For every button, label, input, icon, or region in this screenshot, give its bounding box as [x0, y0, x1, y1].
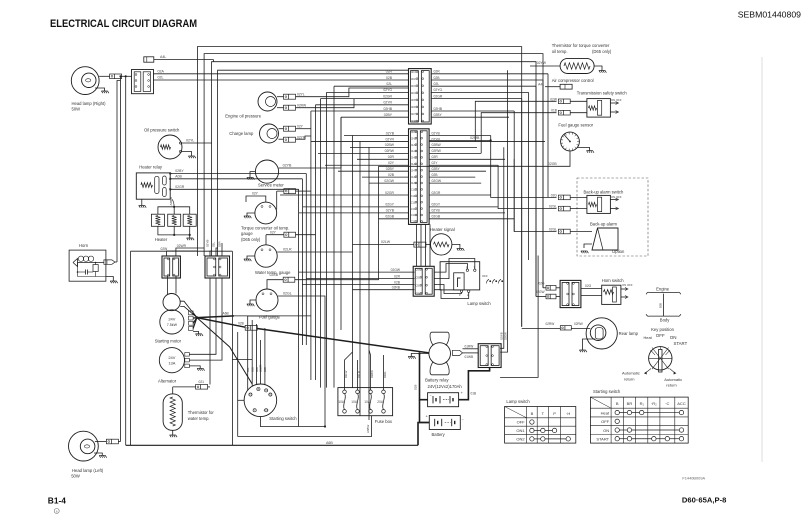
ground heater: [187, 238, 195, 240]
ground battery relay: [408, 357, 416, 359]
svg-text:Fuse box: Fuse box: [375, 419, 393, 424]
wire heater signal in: [380, 243, 414, 245]
connector headlamp L: [106, 439, 118, 444]
wire tc right: [276, 191, 278, 209]
node junction: [125, 75, 127, 77]
wire ss left stub: [232, 359, 252, 361]
fuel gauge: [256, 289, 278, 311]
svg-text:CH9: CH9: [411, 181, 417, 185]
svg-text:Starting switch: Starting switch: [593, 389, 621, 394]
wire fuse bottom: [238, 416, 372, 437]
fuse F3: [369, 390, 373, 394]
connector bas1: [558, 195, 570, 200]
wire heater gnd: [189, 235, 191, 238]
svg-text:02R: 02R: [434, 70, 441, 74]
wire connector to relay: [122, 75, 132, 77]
wire charge 2: [279, 138, 284, 140]
svg-text:02GR: 02GR: [434, 94, 443, 98]
svg-text:02GL: 02GL: [283, 292, 292, 296]
starting motor main circle: [160, 310, 184, 334]
heater resistor bank: [151, 214, 164, 226]
wire CN1 R2: [431, 79, 543, 81]
wire fuse F2 top: [357, 382, 359, 390]
wire hr bundle d3: [298, 189, 300, 426]
svg-text:02GW: 02GW: [391, 268, 401, 272]
ground horn: [110, 281, 118, 283]
component A4L fuse: [144, 57, 154, 62]
frame right edge: [761, 57, 763, 462]
relay block K1: [132, 70, 154, 94]
svg-text:B: B: [531, 411, 534, 416]
wire CN2 R3: [429, 146, 477, 148]
svg-text:05B: 05B: [250, 367, 254, 372]
svg-text:02GL: 02GL: [549, 228, 557, 232]
svg-text:Body: Body: [660, 317, 670, 322]
charge lamp: [260, 124, 279, 143]
wire CN2 R13: [429, 206, 498, 208]
wire inner-frame top: [131, 250, 233, 252]
svg-text:06B: 06B: [263, 367, 267, 372]
wire heater bottom rail: [158, 226, 190, 235]
svg-text:·H: ·H: [566, 411, 570, 416]
wire mid conn2: [266, 234, 284, 236]
svg-text:7.5kW: 7.5kW: [167, 323, 178, 327]
connector CN2 lower: [409, 129, 430, 225]
svg-text:Torque converter oil temp.: Torque converter oil temp.: [241, 225, 289, 230]
svg-text:Starting motor: Starting motor: [155, 339, 182, 344]
wire CN1 R4: [431, 91, 528, 93]
svg-text:02RW: 02RW: [574, 322, 583, 326]
head lamp (Right): [71, 67, 99, 95]
wire fuel gnd: [250, 300, 256, 304]
wire eng oil 2: [277, 107, 284, 109]
wire CN2 to lampsw drops: [416, 224, 418, 266]
svg-text:Battery relay: Battery relay: [425, 377, 449, 382]
wire CN2 R14: [429, 212, 505, 214]
wire heater relay o3: [170, 188, 298, 190]
svg-text:02R: 02R: [386, 70, 393, 74]
svg-text:C: C: [254, 409, 256, 412]
starting switch pins: [257, 387, 260, 390]
wire ba gnd: [584, 244, 592, 248]
thermistor torque converter: [560, 58, 594, 73]
wire rear lamp conn: [571, 327, 590, 329]
wire top bus 3: [212, 62, 536, 297]
wire horn to riser: [115, 261, 117, 263]
wire motor pin stubs: [180, 301, 197, 317]
page mark: [54, 508, 59, 513]
wire right bundle v4: [498, 165, 556, 209]
starting motor pins: [189, 311, 194, 315]
svg-text:02G: 02G: [585, 284, 592, 288]
ground fuel gauge: [247, 304, 255, 306]
wire battery2 minus: [418, 423, 429, 446]
svg-text:02B: 02B: [388, 173, 395, 177]
wire connA up2: [176, 248, 204, 256]
wire alt1: [189, 330, 216, 354]
wire CN1r v3: [535, 86, 537, 296]
svg-text:CD5: CD5: [411, 98, 417, 102]
wire lamp sw 2: [306, 278, 414, 280]
svg-text:return: return: [666, 383, 676, 388]
wire CN1 R1: [431, 73, 548, 75]
svg-text:SEBM01440809: SEBM01440809: [738, 10, 801, 20]
svg-text:02L: 02L: [212, 242, 216, 247]
wire ts2: [570, 112, 587, 114]
wire fuse F1 top: [344, 382, 346, 390]
heater signal: [431, 234, 452, 255]
fuse F2: [356, 390, 360, 394]
water temp gauge: [255, 245, 277, 267]
head lamp (Left) pin: [95, 441, 107, 443]
svg-text:02W: 02W: [550, 97, 558, 101]
wire right bundle v5: [500, 147, 504, 348]
svg-text:02BW: 02BW: [370, 370, 374, 378]
ground alternator: [197, 369, 205, 371]
connector charge 1: [284, 126, 296, 131]
svg-text:Lamp switch: Lamp switch: [506, 399, 530, 404]
svg-text:02YB: 02YB: [432, 131, 441, 135]
svg-text:ACC: ACC: [264, 409, 269, 412]
wire A4L drop: [212, 60, 214, 62]
wire heater relay o2: [170, 178, 302, 180]
service meter: [255, 160, 278, 183]
svg-text:·R₂: ·R₂: [651, 401, 657, 406]
wire top bus 4: [218, 70, 409, 256]
svg-text:02BW: 02BW: [432, 143, 442, 147]
wire right bundle v3: [491, 136, 557, 198]
svg-text:02Y: 02Y: [297, 125, 304, 129]
wire connA d1: [167, 276, 169, 294]
svg-text:P: P: [553, 411, 556, 416]
wire right bundle v1: [475, 101, 556, 141]
svg-text:A4L: A4L: [538, 82, 544, 86]
horn symbol: [73, 259, 78, 267]
wire headlamp feed vertical: [120, 76, 122, 441]
wire hr bundle d2: [301, 179, 303, 345]
svg-text:02BY: 02BY: [432, 167, 441, 171]
svg-text:Automatic: Automatic: [664, 377, 682, 382]
wire fgs bottom 02GB: [379, 151, 571, 166]
wire junction 02MB: [490, 139, 492, 141]
svg-text:24V(12Vx2)170Ah: 24V(12Vx2)170Ah: [428, 384, 463, 389]
svg-text:02RL: 02RL: [383, 371, 387, 378]
wire bottom bus A6B: [126, 444, 418, 446]
battery relay connector hex: [453, 350, 463, 355]
svg-text:02Y: 02Y: [252, 192, 259, 196]
svg-text:A6BW: A6BW: [169, 197, 173, 206]
svg-text:02LR: 02LR: [357, 371, 361, 378]
wire oil sw out: [182, 142, 212, 144]
wire CN2 L9: [369, 182, 409, 184]
connector headlamp R: [110, 74, 122, 79]
svg-text:CH8: CH8: [411, 175, 417, 179]
ground heater signal: [457, 249, 465, 251]
svg-text:02YB: 02YB: [206, 240, 210, 247]
svg-text:02RW: 02RW: [432, 149, 442, 153]
wire air comp in: [545, 86, 560, 88]
svg-text:02L: 02L: [434, 82, 440, 86]
svg-text:CH3: CH3: [411, 143, 417, 147]
option box: [577, 178, 648, 256]
wire connB up2: [216, 248, 218, 256]
svg-text:Fuel gauge sensor: Fuel gauge sensor: [558, 123, 593, 128]
wire CN1 pin8 wire: [341, 116, 409, 118]
fuse F4: [382, 390, 386, 394]
svg-text:02YR: 02YR: [432, 137, 441, 141]
wire horn sw2: [536, 296, 546, 298]
wire connB up1: [210, 251, 212, 256]
svg-text:Service meter: Service meter: [258, 182, 284, 187]
wire bundle v8: [359, 141, 361, 415]
head lamp (Left) gnd: [94, 453, 102, 456]
connector battery relay block: [478, 344, 501, 368]
wire right bundle v2: [481, 113, 556, 154]
svg-text:Heat: Heat: [644, 335, 653, 340]
svg-text:Charge lamp: Charge lamp: [229, 131, 254, 136]
connector motor cable: [245, 325, 257, 330]
wire alt3: [189, 366, 200, 369]
connector ts1: [558, 99, 570, 104]
svg-text:021: 021: [199, 380, 205, 384]
svg-text:R₁: R₁: [640, 401, 645, 406]
wire ss feed 1: [247, 340, 249, 390]
svg-text:02GR: 02GR: [383, 94, 392, 98]
connector ts2: [558, 110, 570, 115]
svg-text:02GL: 02GL: [549, 205, 557, 209]
thermistor for water temp: [163, 394, 182, 430]
wire connA d2: [175, 276, 177, 294]
wire CN2 R11: [429, 194, 491, 196]
svg-text:02R: 02R: [218, 241, 222, 247]
svg-text:(D65 only): (D65 only): [592, 49, 612, 54]
connector eng oil 2: [284, 105, 296, 110]
wire bas1: [570, 196, 587, 198]
connector mid 3: [283, 277, 295, 282]
svg-text:02B: 02B: [255, 367, 259, 372]
svg-text:02YB: 02YB: [386, 131, 395, 135]
wire heater top rail: [158, 207, 190, 214]
starting motor small circle: [163, 294, 180, 311]
wire CN2 L13: [303, 206, 409, 208]
svg-text:B: B: [616, 401, 619, 406]
lamp switch wire loops: [434, 264, 467, 273]
svg-text:02BY: 02BY: [434, 113, 443, 117]
wire bundle v4: [326, 92, 328, 387]
svg-text:01WB: 01WB: [465, 355, 474, 359]
svg-text:CH2: CH2: [411, 136, 417, 140]
svg-text:05L: 05L: [246, 367, 250, 372]
wire oil sw gnd: [182, 152, 192, 157]
svg-text:02GR: 02GR: [385, 191, 394, 195]
svg-text:02YR: 02YR: [384, 101, 393, 105]
svg-text:CH4: CH4: [411, 149, 417, 153]
wire lamp sw 4: [353, 289, 415, 291]
connector horn block: [560, 280, 581, 307]
svg-text:OFF: OFF: [517, 420, 526, 425]
wire heater relay gnd: [141, 199, 143, 205]
svg-text:02L: 02L: [158, 76, 164, 80]
svg-text:BR: BR: [627, 401, 633, 406]
connector horn in1: [546, 286, 556, 291]
svg-text:02RW: 02RW: [546, 322, 555, 326]
svg-text:02GR: 02GR: [432, 191, 441, 195]
svg-text:CD1: CD1: [415, 268, 421, 272]
svg-text:Thermistor for: Thermistor for: [188, 410, 215, 415]
svg-text:A0B: A0B: [175, 175, 182, 179]
fuse F1: [343, 390, 347, 394]
head lamp (Right) pin: [99, 75, 110, 77]
wire CN1 R3: [431, 85, 536, 87]
wire ss bottom: [260, 417, 325, 427]
svg-text:START: START: [596, 437, 609, 442]
wire bundle v9: [368, 147, 370, 420]
horn switch: [602, 285, 621, 304]
connector mid 1: [284, 189, 296, 194]
svg-text:02RB: 02RB: [392, 286, 401, 290]
wire connB d2: [215, 278, 217, 330]
wire CN2 right jog: [429, 139, 491, 141]
horn inner circuit: [77, 263, 79, 277]
svg-text:02YB: 02YB: [283, 164, 292, 168]
backup alarm: [592, 228, 618, 250]
wire tc top: [246, 196, 266, 202]
wire thermistor tc in: [530, 65, 560, 67]
svg-text:10A: 10A: [351, 400, 358, 404]
svg-text:02GB: 02GB: [548, 162, 557, 166]
wire bundle v5: [333, 86, 335, 387]
ground thermistor: [170, 435, 178, 437]
svg-text:Back-up alarm switch: Back-up alarm switch: [584, 189, 624, 194]
wire motor g: [193, 332, 199, 334]
svg-text:ACC: ACC: [677, 401, 686, 406]
wire fuel conn out: [295, 166, 379, 279]
svg-text:A6B: A6B: [223, 311, 230, 315]
engine bar: [646, 292, 681, 294]
svg-text:02R: 02R: [388, 155, 395, 159]
wire 02A: [153, 73, 408, 75]
wire CN2 R9: [429, 182, 481, 184]
wire CN2 R7: [429, 170, 486, 172]
wire fuel top: [267, 280, 283, 289]
wire ss left: [237, 399, 244, 401]
wire connB d3: [221, 278, 223, 356]
wire bundle v2: [315, 105, 317, 380]
wire CN2 L2: [311, 140, 409, 142]
svg-text:02BY: 02BY: [175, 169, 184, 173]
svg-text:CH7: CH7: [411, 168, 417, 172]
svg-text:02LR: 02LR: [283, 248, 292, 252]
svg-text:02YG: 02YG: [383, 88, 392, 92]
connector thermistor: [196, 385, 208, 390]
wire fuel right: [278, 296, 325, 427]
svg-text:02HB: 02HB: [384, 107, 393, 111]
wire service out: [279, 117, 341, 168]
wire CN2 L15: [379, 218, 409, 220]
svg-text:CD7: CD7: [411, 112, 417, 116]
svg-text:CD4: CD4: [411, 91, 417, 95]
wire ss feed 2: [251, 340, 253, 386]
svg-text:02GB: 02GB: [432, 215, 441, 219]
connector lamp switch: [413, 266, 434, 296]
ground starting motor: [195, 334, 203, 336]
svg-text:Heater: Heater: [155, 237, 168, 242]
svg-text:02G: 02G: [538, 281, 545, 285]
wire CN1 R7: [431, 116, 509, 118]
air compressor control: [560, 84, 572, 89]
svg-text:Engine oil pressure: Engine oil pressure: [225, 114, 262, 119]
wire CN2 R1: [429, 135, 491, 137]
horn box: [69, 250, 106, 281]
svg-text:02GW: 02GW: [384, 179, 394, 183]
starting switch table: [590, 397, 688, 443]
wire thermistor gnd: [172, 430, 174, 435]
ground thermistor tc: [599, 71, 607, 73]
wire bundle v6: [340, 117, 342, 330]
wire bundle v1: [310, 111, 312, 380]
oil pressure switch: [158, 135, 182, 159]
wire CN1 pin6 wire: [316, 104, 409, 106]
wire hl conn: [118, 441, 120, 443]
svg-text:B05: B05: [659, 302, 663, 308]
wire thermistor conn: [173, 386, 196, 388]
svg-text:oil temp.: oil temp.: [552, 49, 568, 54]
svg-text:02YB: 02YB: [432, 209, 441, 213]
wire rear lamp in: [522, 327, 561, 329]
svg-text:02GR: 02GR: [175, 185, 184, 189]
svg-text:02G: 02G: [551, 193, 558, 197]
wire horn sw1: [543, 287, 546, 289]
svg-text:02LW: 02LW: [381, 240, 391, 244]
wire br out1: [463, 348, 479, 350]
svg-text:Engine: Engine: [656, 286, 670, 291]
wire ss feed 4: [259, 340, 261, 384]
svg-text:CH1: CH1: [411, 130, 417, 134]
ground head lamp R: [101, 91, 109, 93]
svg-text:Heater relay: Heater relay: [139, 165, 163, 170]
svg-text:02WR: 02WR: [259, 364, 263, 372]
svg-text:water temp.: water temp.: [188, 416, 210, 421]
svg-text:Rear lamp: Rear lamp: [619, 331, 639, 336]
svg-text:01RW: 01RW: [465, 344, 474, 348]
wire engine-body: [663, 294, 665, 316]
svg-text:10A: 10A: [364, 400, 371, 404]
fuel gauge sensor: [561, 132, 580, 151]
wire connA up1: [167, 251, 198, 256]
wire ss feeds top: [248, 316, 278, 340]
ground rear lamp: [579, 350, 587, 352]
heater relay K2: [136, 173, 170, 199]
key position dial: [649, 347, 672, 370]
svg-text:Key position: Key position: [651, 327, 674, 332]
svg-text:D60·65A,P-8: D60·65A,P-8: [682, 495, 727, 504]
wire A4L: [154, 59, 214, 61]
svg-text:Transmission safety switch: Transmission safety switch: [577, 90, 628, 95]
svg-text:Horn switch: Horn switch: [602, 278, 625, 283]
svg-text:02RW: 02RW: [297, 104, 307, 108]
wire ts1: [570, 100, 587, 102]
fuse box: [338, 388, 393, 416]
wire CN2 R5: [429, 158, 505, 160]
wire lamp sw 3: [302, 284, 414, 286]
wire ss feed 3: [256, 340, 258, 384]
head lamp (Left): [69, 431, 99, 461]
svg-text:Automatic: Automatic: [622, 371, 640, 376]
svg-text:02R: 02R: [432, 155, 439, 159]
wire bundle v7: [352, 136, 354, 388]
svg-text:gauge: gauge: [241, 231, 253, 236]
svg-text:(D65 only): (D65 only): [241, 237, 261, 242]
